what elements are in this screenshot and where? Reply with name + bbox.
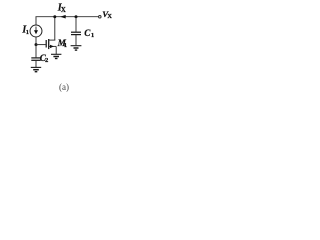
svg-text:1: 1: [91, 32, 94, 39]
node gate junction: [35, 43, 38, 46]
current arrow IX on rail: [60, 15, 66, 19]
wire top rail: [36, 16, 99, 18]
ground below C2: [31, 67, 41, 71]
node drain-rail junction: [53, 15, 56, 18]
wire C1 to ground: [75, 35, 77, 45]
node C1-rail junction: [75, 15, 78, 18]
wire C1 riser: [75, 17, 77, 32]
ground below C1: [71, 46, 82, 50]
transistor M1: [46, 39, 56, 49]
svg-text:1: 1: [26, 29, 29, 36]
svg-text:X: X: [61, 7, 66, 14]
wire source dropper: [55, 46, 57, 54]
wire C2 to ground: [35, 61, 37, 67]
wire drain riser: [54, 17, 56, 40]
wire I1 top riser: [35, 17, 37, 26]
svg-text:1: 1: [64, 42, 67, 49]
current source I1: [30, 25, 42, 37]
capacitor C2: [31, 58, 40, 60]
wire gate lead: [36, 44, 46, 46]
wire I1 bottom to gate node: [35, 37, 37, 45]
capacitor C1: [71, 32, 81, 34]
wire gate node down to C2: [35, 45, 37, 58]
terminal VX: [99, 16, 102, 19]
ground below M1 source: [51, 54, 61, 58]
svg-text:(a): (a): [59, 82, 69, 92]
svg-text:X: X: [107, 13, 112, 20]
